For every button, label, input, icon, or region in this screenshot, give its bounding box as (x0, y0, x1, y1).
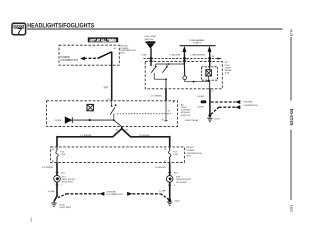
diode (65, 116, 73, 123)
svg-text:30: 30 (164, 149, 166, 151)
HOT AT ALL TIMES banner (88, 37, 118, 42)
relay internal link line (156, 63, 185, 65)
svg-text:85: 85 (162, 119, 165, 121)
lamp to ground stub (208, 76, 210, 80)
label GROUND DISTRIBUTION bottom (107, 191, 123, 196)
svg-text:(LEFT FWL): (LEFT FWL) (59, 207, 71, 209)
connector tag X20 (201, 100, 207, 103)
off-page connector arrow lower (235, 105, 240, 109)
right page-edge rule upper segment (290, 37, 292, 101)
svg-text:1.5 WS/GN: 1.5 WS/GN (42, 167, 53, 169)
title underline rule (27, 28, 283, 30)
fuse F12 (56, 147, 58, 163)
lamp feed stub (209, 62, 211, 70)
ground junction node (208, 114, 211, 117)
fuse terminal labels (52, 149, 166, 163)
svg-text:0.5 BR: 0.5 BR (197, 96, 204, 98)
svg-text:LIGHTS: LIGHTS (193, 43, 201, 45)
svg-text:1.5 GN/WS: 1.5 GN/WS (151, 96, 163, 98)
svg-text:6313-04: 6313-04 (289, 108, 294, 125)
svg-text:4 RT: 4 RT (104, 88, 110, 90)
svg-text:2: 2 (174, 185, 176, 187)
svg-text:FOGLIGHT: FOGLIGHT (176, 182, 188, 184)
svg-text:30: 30 (52, 149, 54, 151)
label TURN/HAZARD LIGHTS (189, 39, 205, 45)
switch output diagonal (114, 120, 122, 127)
svg-text:(LM): (LM) (225, 73, 230, 75)
svg-text:7.5A: 7.5A (60, 153, 65, 156)
svg-text:1.0 BR: 1.0 BR (48, 191, 55, 193)
label FOG LIGHT SWITCH (145, 36, 157, 41)
svg-text:7: 7 (17, 26, 22, 36)
wire to right foglight (130, 136, 169, 147)
svg-text:TURN/HAZARD: TURN/HAZARD (189, 39, 205, 42)
svg-text:G100: G100 (174, 201, 180, 203)
ground junction right (168, 199, 171, 202)
off-page connector arrow bottom left (99, 192, 104, 196)
module switch (110, 101, 116, 121)
off-page connector arrow to power distribution (80, 57, 85, 61)
svg-text:1 GE/SW/WS: 1 GE/SW/WS (190, 54, 206, 56)
line arrow marker (89, 119, 92, 122)
wire fuse to right foglight (169, 163, 171, 176)
svg-text:RELAY: RELAY (225, 69, 232, 72)
svg-text:31: 31 (211, 91, 214, 93)
svg-text:88: 88 (212, 56, 214, 58)
main supply wire from power box (111, 52, 113, 101)
label K17 relay module (225, 62, 232, 74)
label front power distribution box lower (186, 147, 202, 157)
relay coil (183, 64, 187, 82)
stub terminal wire (164, 101, 167, 121)
label left foglight (62, 176, 76, 183)
bracket to TURN/HAZARD LIGHTS (180, 46, 216, 52)
svg-text:30: 30 (113, 48, 116, 50)
wire fuse to left foglight (56, 163, 58, 176)
svg-text:LIGHT RELAY: LIGHT RELAY (185, 119, 199, 122)
svg-text:DISTRIBUTION: DISTRIBUTION (107, 194, 123, 196)
foglight relay module K17 box (dashed) (145, 62, 222, 89)
svg-text:DISTRIBUTION: DISTRIBUTION (186, 153, 202, 155)
fuse F13 (169, 147, 171, 163)
svg-text:GROUND: GROUND (244, 102, 254, 104)
fuse label F12 7.5A (60, 152, 65, 157)
label light control module (181, 103, 199, 122)
wire from bracket right (209, 52, 211, 67)
svg-text:1.5 WS/GE: 1.5 WS/GE (139, 135, 150, 137)
wire from bracket left (183, 52, 185, 65)
svg-text:GROUND: GROUND (107, 191, 117, 193)
svg-text:1.5 WS/GN: 1.5 WS/GN (155, 167, 166, 169)
svg-text:ETM: ETM (290, 29, 294, 36)
light module box (dashed) (47, 101, 178, 127)
dashed wire to ground distribution lower (211, 107, 235, 114)
indicator sub-box (dashed) (201, 67, 217, 80)
coil to ground link (185, 81, 210, 83)
svg-text:E18: E18 (174, 172, 178, 174)
ground G100 left (51, 201, 56, 206)
ground G101 (207, 116, 212, 122)
svg-text:(LM) FOG: (LM) FOG (181, 115, 191, 117)
svg-text:FRONT: FRONT (186, 147, 194, 149)
off-page arrow from fog light switch (146, 41, 156, 48)
svg-text:G101: G101 (214, 118, 220, 120)
svg-text:SWITCH: SWITCH (145, 39, 154, 41)
svg-text:A4: A4 (181, 103, 184, 106)
dashed wire to ground distribution upper (211, 101, 236, 103)
output wire split (113, 126, 131, 137)
svg-text:DIODE: DIODE (55, 120, 62, 122)
svg-text:87: 87 (52, 161, 54, 163)
svg-text:1991: 1991 (290, 205, 294, 212)
left foglight E17 (54, 175, 61, 182)
relay contact output wiring (154, 73, 167, 89)
svg-text:1.0 BR: 1.0 BR (159, 191, 166, 193)
svg-text:1.5 WS/GE: 1.5 WS/GE (80, 135, 91, 137)
svg-text:POWER: POWER (186, 150, 195, 152)
dashed branch to ground distribution (58, 194, 99, 198)
svg-text:HOT AT ALL TIMES: HOT AT ALL TIMES (90, 39, 117, 43)
svg-text:DISTRIBUTION: DISTRIBUTION (61, 60, 79, 62)
terminal tick left lamp (56, 172, 59, 174)
svg-text:7.5A: 7.5A (173, 153, 178, 156)
switch contact 1 (151, 64, 156, 73)
right foglight E18 (166, 176, 173, 183)
label right foglight (176, 177, 191, 184)
svg-text:X12: X12 (124, 130, 128, 132)
svg-text:2: 2 (61, 185, 63, 187)
label FRONT POWER DISTRIBUTION BOX (120, 45, 136, 54)
svg-text:1 BL/GN: 1 BL/GN (170, 54, 181, 56)
dashed feed wire in power box (84, 57, 98, 59)
wire left foglight to ground (54, 182, 63, 201)
off-page connector arrow bottom right (127, 192, 132, 196)
svg-text:BOX: BOX (120, 53, 125, 55)
svg-text:BOX: BOX (186, 156, 191, 158)
internal dashed link (117, 113, 171, 115)
relay ground wire (209, 88, 211, 115)
svg-text:DISTRIBUTION: DISTRIBUTION (244, 105, 258, 107)
diode output line (72, 119, 114, 121)
front power distribution box (dashed) (59, 45, 119, 65)
svg-text:E17: E17 (61, 172, 65, 174)
connector strip X18 (dashed) (144, 57, 223, 59)
series badge 7 (12, 23, 26, 36)
wire from switch arrow (150, 48, 152, 66)
svg-text:1.0 BR: 1.0 BR (197, 107, 204, 109)
wire relay to light module (165, 88, 167, 100)
svg-text:M: M (168, 111, 170, 113)
svg-text:FOGLIGHT: FOGLIGHT (62, 182, 74, 184)
wire right foglight to ground (168, 182, 176, 200)
off-page connector arrow upper (235, 100, 240, 104)
switch contact 2 (162, 64, 167, 73)
module lamp (crossed square) (87, 104, 93, 110)
indicator lamp (crossed square) (206, 70, 212, 76)
wire to left foglight (57, 136, 113, 147)
ground G101 right (167, 200, 172, 205)
front power distribution fuse box (dashed) (51, 147, 185, 163)
dashed wire to right foglight ground (132, 194, 169, 200)
svg-text:1 SW: 1 SW (141, 54, 147, 56)
right page-edge rule lower segment (290, 130, 292, 201)
fuse label F13 7.5A (173, 152, 178, 157)
diagonal feed wire (98, 52, 112, 59)
svg-text:(: ( (31, 217, 33, 222)
ground label G100 (59, 204, 71, 209)
connector strip terminal pads (150, 58, 220, 63)
terminal tick right lamp (168, 172, 171, 174)
svg-text:87: 87 (164, 161, 166, 163)
label GROUND DISTRIBUTION (244, 102, 258, 108)
svg-text:HEADLIGHTS/FOGLIGHTS: HEADLIGHTS/FOGLIGHTS (27, 22, 95, 29)
